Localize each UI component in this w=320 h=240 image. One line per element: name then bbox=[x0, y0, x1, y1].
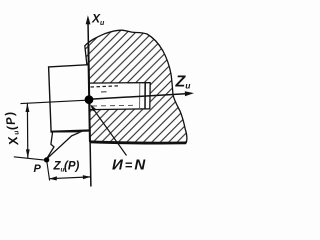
Z dimension line bbox=[49, 177, 90, 179]
svg-text:Zи: Zи bbox=[175, 74, 192, 91]
X dimension line bbox=[26, 103, 28, 158]
tool insert (cutting tip) bbox=[46, 132, 81, 160]
svg-text:И=N: И=N bbox=[112, 156, 146, 173]
X dimension bottom arrow bbox=[26, 149, 30, 158]
Z dimension right arrow bbox=[83, 175, 91, 179]
svg-text:Xи(P): Xи(P) bbox=[1, 110, 22, 148]
svg-text:Zи(P): Zи(P) bbox=[53, 161, 80, 174]
Z axis bbox=[89, 94, 186, 100]
shank dashed line (bottom, inside bore) bbox=[92, 104, 134, 107]
X dimension top arrow bbox=[26, 103, 30, 112]
shank short dash (center) bbox=[101, 91, 107, 93]
block face overdraw bbox=[88, 45, 90, 141]
tool block (workpiece) outline with bore notch, hatched bbox=[85, 30, 187, 143]
thick lower boundary of block bbox=[90, 142, 186, 143]
leader line to И=N label bbox=[92, 107, 127, 156]
X dimension: bottom extension line bbox=[14, 157, 46, 160]
origin dot (point И coincident with N) bbox=[85, 95, 94, 104]
X axis arrowhead bbox=[86, 15, 91, 24]
bore end inner line bbox=[144, 83, 146, 109]
bore end second faint line bbox=[139, 83, 141, 109]
svg-text:P: P bbox=[34, 163, 42, 175]
svg-text:Xи: Xи bbox=[91, 12, 105, 28]
Z dimension left arrow bbox=[49, 176, 57, 180]
Z dimension: left extension line (below P) bbox=[47, 163, 50, 181]
shank dashed line (top, inside bore) bbox=[91, 86, 120, 87]
tool holder body bbox=[49, 65, 90, 132]
X dimension: top extension line bbox=[21, 100, 88, 103]
Z axis arrowhead bbox=[185, 91, 194, 96]
holder bottom edge (thick) bbox=[51, 131, 89, 132]
point P dot bbox=[44, 157, 49, 162]
X axis (continues down as block face and right extension line of Z dim) bbox=[88, 22, 91, 187]
leader arrowhead bbox=[90, 104, 96, 111]
